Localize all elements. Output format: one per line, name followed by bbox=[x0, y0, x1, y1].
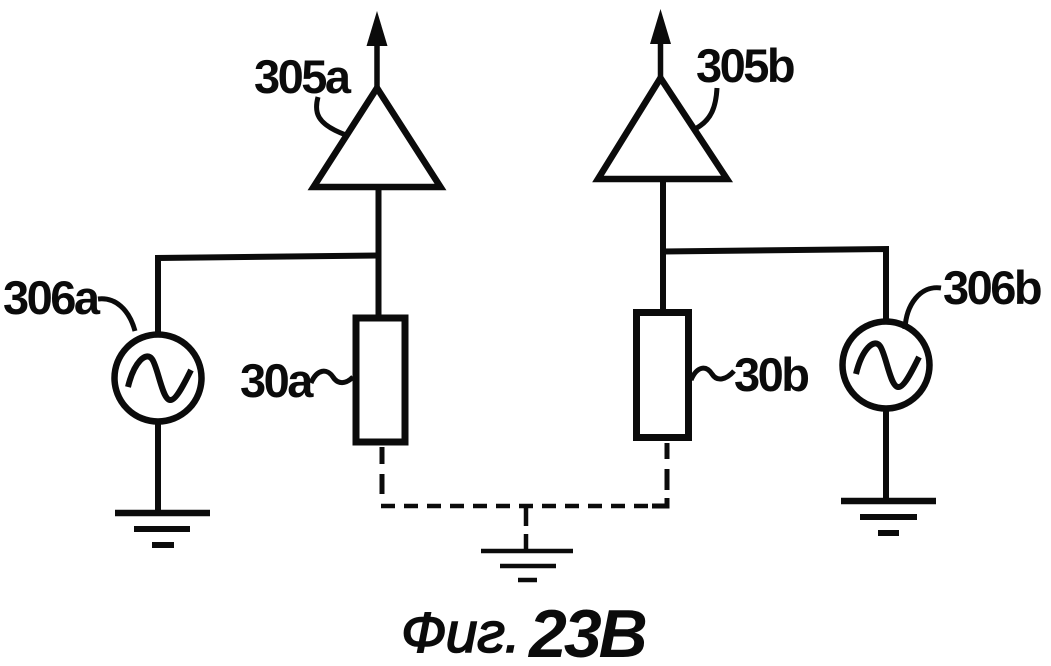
source 306b sine bbox=[856, 343, 919, 387]
wire source 306b to node B bbox=[663, 249, 886, 322]
svg-text:30a: 30a bbox=[240, 354, 314, 407]
wire source 306a to ground bbox=[155, 421, 161, 513]
ground left line2 bbox=[134, 526, 190, 532]
source 306a sine bbox=[128, 356, 191, 400]
leader 30a tilde bbox=[311, 371, 353, 383]
svg-text:23В: 23В bbox=[527, 596, 646, 666]
resistor 30a bbox=[356, 318, 405, 442]
dashed wire horizontal common bbox=[381, 504, 652, 509]
ground right line2 bbox=[860, 514, 917, 520]
svg-text:30b: 30b bbox=[734, 348, 808, 401]
leader 306a bbox=[98, 299, 135, 331]
leader 30b tilde bbox=[691, 368, 734, 380]
ground right line3 bbox=[878, 530, 899, 536]
leader 306b bbox=[905, 288, 941, 329]
antenna 305a triangle bbox=[314, 88, 441, 187]
ground left line1 bbox=[115, 510, 210, 517]
source 306b circle bbox=[843, 322, 930, 409]
antenna 305b triangle bbox=[598, 78, 727, 179]
wire source 306b to ground bbox=[883, 408, 889, 501]
ground center line3 bbox=[518, 578, 537, 583]
ground left line3 bbox=[152, 542, 174, 548]
wire common node to ground center bbox=[524, 506, 529, 549]
resistor 30b bbox=[637, 313, 689, 438]
svg-text:306a: 306a bbox=[3, 271, 101, 324]
leader 305a bbox=[316, 97, 346, 135]
antenna 305b arrowhead bbox=[650, 9, 671, 44]
antenna 305a arrowhead bbox=[367, 11, 388, 46]
svg-text:306b: 306b bbox=[943, 261, 1041, 314]
svg-text:305a: 305a bbox=[254, 50, 352, 103]
wire source 306a to node A bbox=[158, 256, 378, 333]
ground right line1 bbox=[841, 498, 936, 505]
antenna 305b arrow shaft bbox=[658, 38, 664, 78]
svg-text:Фиг.: Фиг. bbox=[401, 601, 520, 665]
dashed wire resistor 30b down bbox=[652, 443, 667, 506]
wire antenna 305a to resistor 30a bbox=[376, 187, 382, 316]
ground center line2 bbox=[500, 564, 556, 569]
leader 305b bbox=[695, 88, 717, 129]
dashed wire resistor 30a down bbox=[380, 447, 385, 494]
ground center line1 bbox=[481, 549, 573, 554]
svg-text:305b: 305b bbox=[696, 39, 794, 92]
wire antenna 305b to resistor 30b bbox=[660, 179, 666, 311]
antenna 305a arrow shaft bbox=[374, 40, 380, 88]
source 306a circle bbox=[115, 335, 202, 422]
